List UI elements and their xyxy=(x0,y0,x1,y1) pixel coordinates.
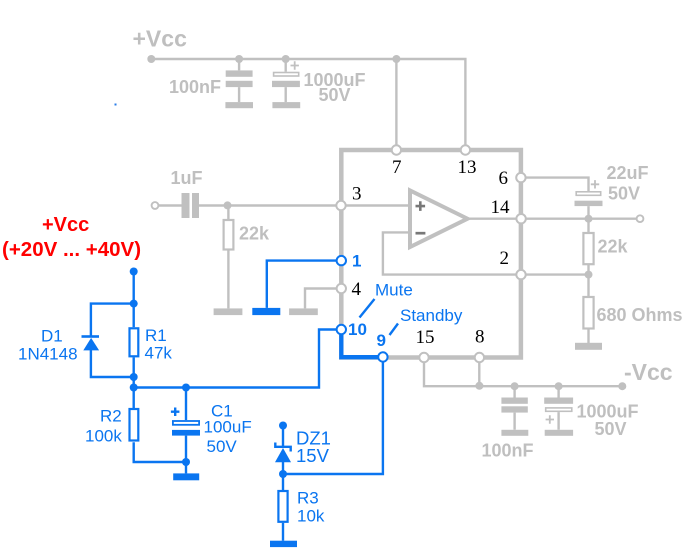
svg-text:R1: R1 xyxy=(145,326,167,345)
svg-text:R2: R2 xyxy=(100,407,122,426)
wire pin 1 to ground xyxy=(267,261,337,308)
svg-text:2: 2 xyxy=(500,248,510,269)
svg-text:9: 9 xyxy=(377,331,386,350)
svg-text:680 Ohms: 680 Ohms xyxy=(597,305,683,325)
wire pin 14 to output terminal xyxy=(521,217,637,219)
wire +Vcc rail xyxy=(151,59,465,150)
svg-text:10k: 10k xyxy=(297,507,325,526)
svg-text:+Vcc: +Vcc xyxy=(42,214,89,236)
ground (pin 1) xyxy=(252,308,280,315)
ground (pin 4) xyxy=(289,308,318,315)
node junction DZ1/R3 xyxy=(279,470,287,478)
pin 4 xyxy=(337,284,346,293)
node junction D1 top branch xyxy=(130,300,138,308)
svg-text:Standby: Standby xyxy=(400,306,463,325)
svg-text:4: 4 xyxy=(352,279,362,300)
svg-text:1: 1 xyxy=(352,252,361,271)
node junction C1 bottom xyxy=(182,458,190,466)
wire pin 15 to -Vcc rail xyxy=(424,358,622,387)
node junction 100nF on +Vcc rail xyxy=(235,55,243,63)
svg-text:50V: 50V xyxy=(319,85,351,105)
node junction 22k tap xyxy=(224,201,232,209)
wire Standby pointer xyxy=(390,324,399,336)
wire 1uF to pin 3 xyxy=(199,204,341,206)
pin 2 xyxy=(516,270,525,279)
capacitor 100nF (bottom) xyxy=(501,386,527,430)
wire D1 branch bottom xyxy=(91,350,134,377)
wire pin 4 to ground xyxy=(305,289,341,309)
svg-text:50V: 50V xyxy=(595,419,627,439)
svg-text:Mute: Mute xyxy=(375,281,413,300)
svg-text:D1: D1 xyxy=(41,327,63,346)
node junction D1 bottom rejoin xyxy=(130,373,138,381)
node DZ1 top terminal dot xyxy=(279,422,287,430)
ground (1000uF bottom) xyxy=(545,430,573,436)
diode D1 1N4148 xyxy=(82,335,100,350)
svg-text:6: 6 xyxy=(499,168,509,189)
pin 6 xyxy=(516,173,525,182)
wire +Vcc to pin 7 xyxy=(395,59,397,150)
ground (100nF bottom) xyxy=(501,430,528,436)
svg-text:+Vcc: +Vcc xyxy=(133,26,188,52)
node junction wire to pin10 branch xyxy=(130,384,138,392)
node output terminal (open circle) xyxy=(637,215,644,222)
svg-text:3: 3 xyxy=(352,184,362,205)
svg-text:1N4148: 1N4148 xyxy=(18,345,78,364)
wire D1 branch top xyxy=(91,304,134,336)
svg-text:10: 10 xyxy=(348,320,367,339)
svg-text:R3: R3 xyxy=(297,489,319,508)
resistor 22k (input) xyxy=(224,206,234,309)
svg-text:-Vcc: -Vcc xyxy=(624,359,673,385)
svg-text:7: 7 xyxy=(392,157,402,178)
ground (22k input) xyxy=(214,308,243,315)
capacitor C 1000uF 50V (top) xyxy=(272,59,300,102)
wire op-amp output to pin 14 xyxy=(468,217,522,219)
capacitor 1000uF 50V (bottom) xyxy=(544,386,573,430)
zener diode DZ1 15V xyxy=(275,426,291,475)
capacitor 1uF xyxy=(182,193,200,218)
svg-text:22uF: 22uF xyxy=(607,163,649,183)
resistor R2 100k xyxy=(130,409,139,441)
pin 10 (blue) xyxy=(337,325,346,334)
ground (100nF top) xyxy=(225,102,253,108)
pin 13 xyxy=(461,145,470,154)
pin 7 xyxy=(392,145,401,154)
node +Vcc blue terminal dot xyxy=(130,268,138,276)
ground (1000uF top) xyxy=(272,102,300,108)
wire R2 bottom to C1 bottom xyxy=(134,442,186,462)
svg-text:100nF: 100nF xyxy=(169,77,221,97)
wire feedback op-amp - input to pin 2 xyxy=(383,232,521,274)
capacitor C1 100uF 50V xyxy=(171,388,200,463)
wire pin 8 to -Vcc rail xyxy=(478,358,480,387)
capacitor 100nF (top) xyxy=(226,59,253,102)
stray blue speck artifact xyxy=(115,104,117,106)
wire pin 2 to 22k/680 junction xyxy=(521,273,589,275)
wire junction to pin 10 (via C1 tap) xyxy=(134,330,337,388)
op-amp U1 triangle xyxy=(410,190,468,247)
svg-text:100uF: 100uF xyxy=(204,418,252,437)
node junction 1000uF on -Vcc rail xyxy=(555,382,563,390)
node junction 1000uF on +Vcc rail xyxy=(282,55,290,63)
resistor R3 10k xyxy=(278,474,287,541)
wire pin 6 to 22uF xyxy=(521,178,589,191)
svg-text:47k: 47k xyxy=(145,344,173,363)
pin 9 (blue) xyxy=(378,352,387,361)
svg-text:13: 13 xyxy=(458,157,477,178)
pin 14 xyxy=(516,214,525,223)
node junction 22uF/22k on pin14 wire xyxy=(585,215,593,223)
wire pin3 to op-amp + input xyxy=(341,204,410,206)
svg-text:15: 15 xyxy=(416,327,435,348)
node junction pin7 drop on +Vcc rail xyxy=(392,55,400,63)
wire thick pin 10 to pin 9 xyxy=(341,332,378,357)
svg-text:22k: 22k xyxy=(598,237,629,257)
pin 1 (blue) xyxy=(337,256,346,265)
node junction 100nF on -Vcc rail xyxy=(511,382,519,390)
node junction pin 8 on -Vcc rail xyxy=(475,382,483,390)
capacitor 22uF 50V xyxy=(575,180,603,219)
svg-text:100k: 100k xyxy=(85,427,122,446)
node +Vcc rail left endpoint xyxy=(147,55,155,63)
svg-text:50V: 50V xyxy=(207,437,238,456)
resistor 22k (feedback) xyxy=(583,219,593,275)
svg-text:50V: 50V xyxy=(608,184,640,204)
pin 15 xyxy=(419,353,428,362)
wire pin 9 down and left to DZ1 xyxy=(283,362,383,474)
svg-text:8: 8 xyxy=(475,327,485,348)
IC body U1 xyxy=(341,150,521,358)
resistor 680 Ohms xyxy=(583,275,593,346)
svg-text:(+20V ... +40V): (+20V ... +40V) xyxy=(2,238,141,261)
node junction 22k/680 xyxy=(585,271,593,279)
node -Vcc rail right endpoint xyxy=(618,382,626,390)
wire +Vcc terminal down to R1 xyxy=(132,272,134,328)
svg-text:1uF: 1uF xyxy=(171,168,203,188)
pin 8 xyxy=(475,353,484,362)
wire Mute pointer xyxy=(360,299,375,318)
ground (R3) xyxy=(270,541,297,547)
wire input to 1uF xyxy=(159,204,182,206)
pin 3 xyxy=(336,201,345,210)
svg-text:100nF: 100nF xyxy=(482,441,534,461)
wire R1 bottom through junctions to R2 xyxy=(132,357,134,408)
resistor R1 47k xyxy=(130,328,139,356)
node input terminal (open circle) xyxy=(152,202,159,209)
svg-text:22k: 22k xyxy=(239,224,270,244)
svg-text:15V: 15V xyxy=(296,445,330,466)
ground (680 Ohms) xyxy=(575,343,602,350)
wire C1 bottom stub to ground xyxy=(185,462,187,473)
ground (C1/R2) xyxy=(173,473,199,480)
svg-text:14: 14 xyxy=(491,197,511,218)
node junction C1 top tap xyxy=(182,384,190,392)
